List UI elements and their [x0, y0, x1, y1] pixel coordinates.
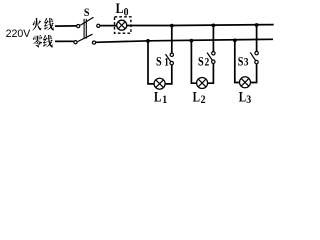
svg-text:3: 3: [244, 57, 249, 69]
svg-text:1: 1: [162, 94, 167, 105]
svg-text:L: L: [193, 89, 200, 105]
svg-text:S: S: [156, 54, 162, 68]
svg-text:S: S: [238, 54, 244, 68]
svg-text:S: S: [198, 54, 204, 68]
svg-text:3: 3: [246, 94, 251, 105]
svg-text:2: 2: [205, 57, 210, 69]
svg-text:L: L: [154, 89, 161, 105]
svg-text:L: L: [116, 0, 124, 16]
svg-text:L: L: [239, 89, 246, 105]
svg-text:0: 0: [124, 6, 129, 19]
svg-text:S: S: [84, 8, 90, 20]
svg-text:1: 1: [164, 57, 169, 69]
svg-text:220V: 220V: [6, 28, 32, 40]
svg-text:2: 2: [201, 94, 206, 105]
